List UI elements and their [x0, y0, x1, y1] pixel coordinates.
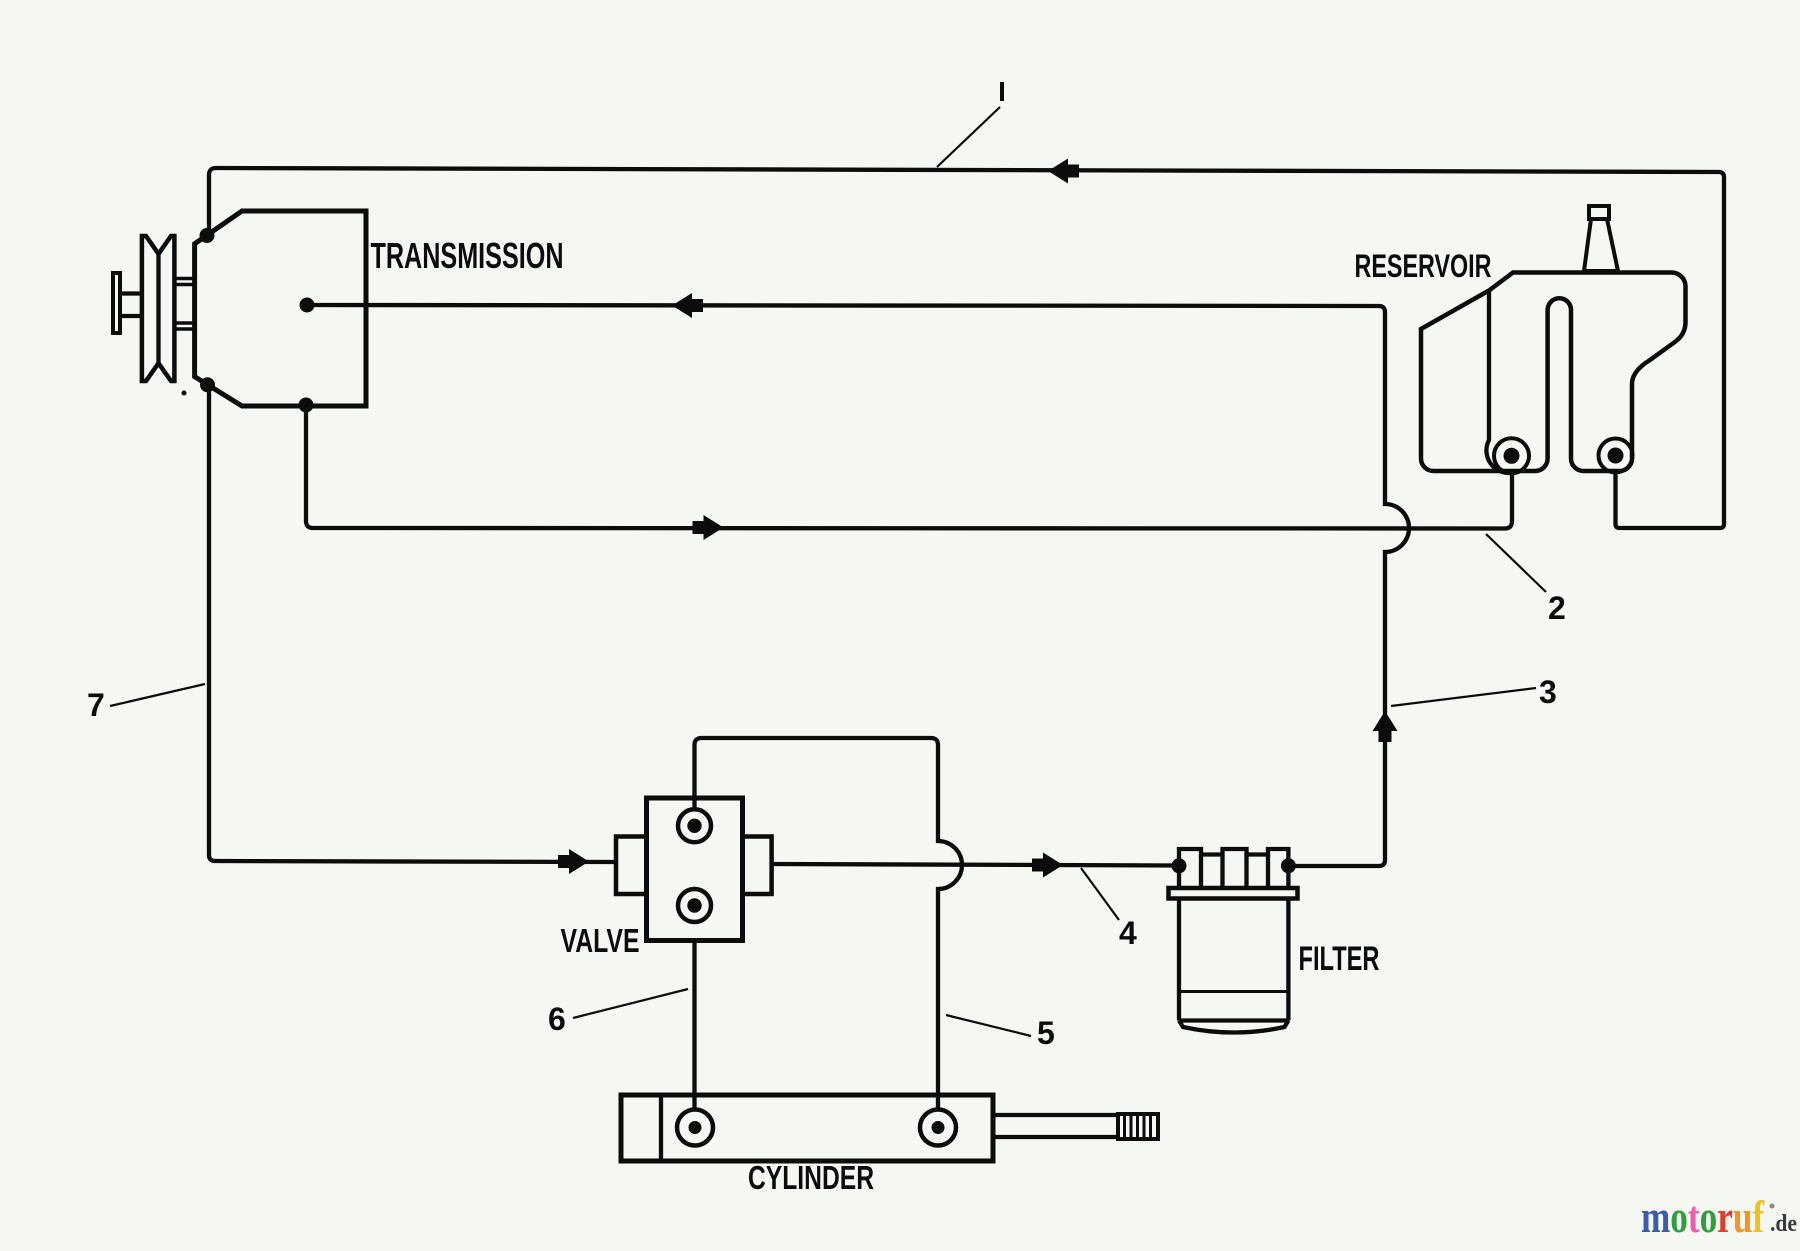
wire 4: valve outlet right to filter inlet — [771, 864, 1179, 866]
transmission top-left junction dot — [200, 228, 215, 243]
filter body — [1179, 899, 1288, 1033]
pulley groove center line — [156, 254, 160, 363]
svg-text:VALVE: VALVE — [561, 922, 640, 959]
wire 6: valve bottom port down to cylinder left port — [692, 940, 696, 1110]
pulley hub sleeve lines — [174, 279, 194, 330]
label 3 leader line — [1391, 688, 1536, 706]
filter crown inner verticals — [1201, 855, 1268, 889]
valve body — [647, 798, 743, 941]
valve bottom port dot — [687, 898, 701, 912]
label 1 numeral tick — [1000, 82, 1004, 101]
arrow on wire 4 (pointing right) — [1032, 853, 1063, 878]
label 5 leader line — [946, 1015, 1031, 1036]
valve right tab — [743, 837, 772, 895]
svg-text:5: 5 — [1037, 1015, 1055, 1051]
arrow on wire 3 horizontal (pointing left) — [672, 293, 703, 318]
cylinder left port circle — [677, 1110, 713, 1146]
pulley v-belt sheave outline — [142, 236, 175, 381]
reservoir right port circle — [1599, 439, 1633, 473]
wire 2: transmission bottom port down and right to reservoir left port — [306, 405, 1512, 529]
valve bottom port circle — [678, 889, 711, 922]
svg-text:CYLINDER: CYLINDER — [748, 1159, 874, 1196]
pulley shaft lines — [122, 294, 141, 317]
filter outlet dot — [1281, 858, 1296, 873]
arrow on wire 2 (pointing right) — [693, 515, 724, 540]
cylinder thread hatching — [1125, 1114, 1151, 1139]
reservoir right port dot — [1608, 448, 1624, 464]
svg-text:4: 4 — [1119, 915, 1137, 951]
filter inlet dot — [1172, 858, 1187, 873]
svg-text:FILTER: FILTER — [1299, 940, 1380, 978]
motoruf.de logo — [1641, 1192, 1765, 1243]
wire 3: filter outlet up and left to transmission middle port (with hop over wire 2) — [308, 305, 1409, 866]
transmission bottom port dot — [299, 398, 314, 413]
wire 1 top loop: transmission top port to reservoir right port — [209, 168, 1724, 528]
wire 5: valve top port loop to cylinder right port (with hop over wire 4) — [695, 738, 963, 1110]
reservoir tank outline — [1421, 272, 1686, 471]
filter crown outline — [1179, 849, 1288, 888]
svg-text:motoruf: motoruf — [1641, 1192, 1765, 1243]
cylinder right port dot — [932, 1121, 945, 1134]
stray ink speck — [182, 391, 187, 396]
reservoir filler cap — [1589, 206, 1609, 219]
svg-text:7: 7 — [87, 687, 105, 723]
wire 7 segment: transmission lower-left down and right to valve inlet — [209, 385, 616, 862]
reservoir left port circle — [1494, 438, 1529, 473]
valve top port circle — [678, 809, 711, 842]
svg-text:.de: .de — [1770, 1211, 1797, 1237]
transmission bottom-left junction dot — [200, 377, 215, 392]
reservoir left port dot — [1504, 448, 1520, 464]
label 7 leader line — [110, 684, 205, 706]
svg-text:TRANSMISSION: TRANSMISSION — [371, 235, 564, 276]
svg-text:6: 6 — [548, 1001, 566, 1037]
svg-text:2: 2 — [1548, 590, 1566, 626]
arrow on wire 7 segment (pointing right) — [558, 849, 589, 874]
label 1 leader line — [937, 107, 1000, 167]
filter body ring line — [1179, 990, 1288, 993]
logo trademark dot — [1770, 1204, 1775, 1209]
filter flange — [1169, 888, 1298, 899]
cylinder body — [621, 1095, 993, 1161]
valve top port dot — [687, 819, 701, 833]
arrow on wire 3 vertical (pointing up) — [1373, 711, 1398, 742]
svg-text:3: 3 — [1539, 674, 1557, 710]
label 2 leader line — [1486, 534, 1546, 592]
reservoir filler neck — [1584, 219, 1618, 271]
cylinder end cap partition — [659, 1095, 663, 1161]
valve left tab — [616, 837, 647, 895]
label 6 leader line — [573, 989, 688, 1018]
svg-text:RESERVOIR: RESERVOIR — [1355, 248, 1492, 284]
transmission body — [195, 211, 366, 406]
reservoir inner feed line — [1486, 291, 1511, 473]
cylinder left port dot — [689, 1121, 702, 1134]
cylinder rod — [993, 1115, 1118, 1137]
label 4 leader line — [1081, 868, 1119, 920]
cylinder rod threaded end — [1118, 1114, 1158, 1139]
arrow on wire 1 (pointing left) — [1048, 159, 1079, 184]
pulley washer plate — [113, 273, 120, 333]
transmission middle port dot — [300, 298, 315, 313]
cylinder right port circle — [920, 1110, 956, 1146]
